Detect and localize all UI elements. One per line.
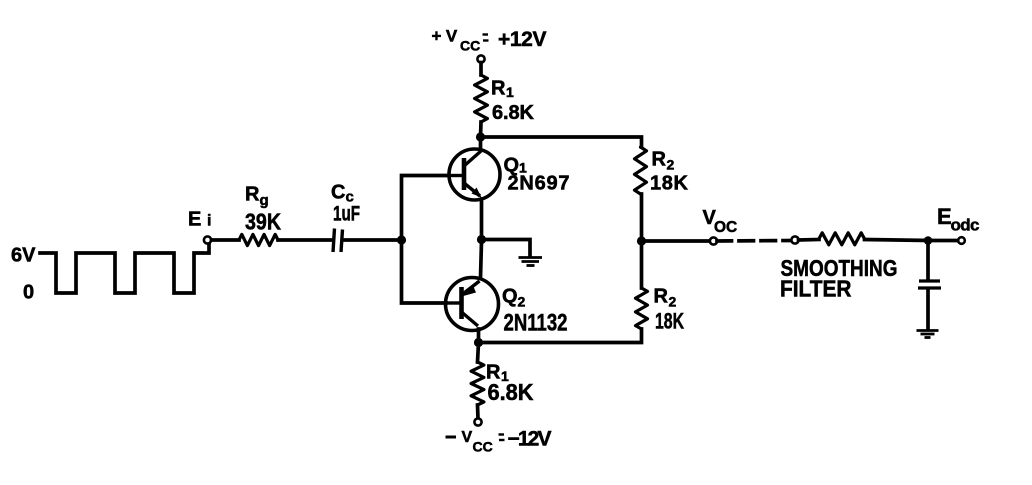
svg-text:V: V [462, 429, 473, 446]
svg-text:6.8K: 6.8K [492, 102, 535, 124]
svg-text:39K: 39K [245, 209, 281, 235]
svg-text:6V: 6V [11, 245, 36, 267]
capacitor Cc 1uF [333, 229, 335, 253]
wire: Q2 emitter up to node [481, 241, 482, 278]
label +Vcc = +12V [432, 27, 547, 54]
wire: Ei to Rg [212, 238, 240, 242]
node: filter input terminal [791, 236, 798, 243]
svg-text:OC: OC [714, 219, 737, 236]
wire: R2 top to Voc junction [640, 194, 644, 241]
power -Vcc terminal [474, 418, 481, 425]
wire: node to Eodc terminal [928, 239, 958, 243]
svg-text:E: E [188, 209, 201, 231]
svg-text:1: 1 [506, 84, 514, 100]
node: emitter junction [477, 235, 486, 244]
node Voc (terminal) [710, 237, 717, 244]
svg-text:CC: CC [473, 439, 493, 455]
transistor Q2 2N1132 (PNP) [446, 278, 499, 331]
resistor R1 6.8K (bottom) [471, 362, 484, 405]
resistor R2 18K (top) [635, 147, 647, 194]
svg-text:Q: Q [502, 286, 518, 308]
svg-text:R: R [652, 149, 667, 171]
svg-text:1uF: 1uF [333, 203, 360, 226]
svg-text:18K: 18K [655, 309, 684, 334]
wire: R1 to node [479, 122, 483, 137]
wire: Q2 collector down [477, 329, 481, 343]
wire: filter resistor to output node [865, 240, 929, 241]
wire: node down to filter capacitor [926, 241, 930, 281]
wire: Q1 emitter down [480, 199, 484, 240]
node Ei (input terminal) [204, 236, 211, 243]
node: bottom junction [474, 338, 483, 347]
ground (emitter) [519, 258, 543, 266]
node: output junction [924, 236, 933, 245]
wire: dashed link to smoothing filter [717, 239, 791, 243]
wire: terminal to filter resistor [799, 238, 820, 242]
node Eodc (output terminal) [958, 237, 965, 244]
svg-text:CC: CC [460, 38, 480, 54]
svg-text:+V: +V [432, 27, 462, 46]
wire: Rg to Cc [278, 238, 331, 242]
svg-text:2N697: 2N697 [508, 173, 570, 195]
wire: R2 bottom to Voc junction [640, 241, 644, 288]
svg-text:i: i [207, 213, 211, 230]
transistor Q1 2N697 (NPN) [449, 149, 500, 200]
power +Vcc terminal [477, 55, 484, 62]
wire: input square wave [40, 245, 209, 293]
wire: bottom node to R2 bottom [479, 329, 642, 343]
wire: bottom node to R1 [478, 343, 479, 363]
svg-text:R: R [491, 78, 506, 100]
resistor R1 6.8K (top) [475, 75, 488, 122]
svg-text:2: 2 [669, 294, 677, 310]
svg-text:E: E [937, 204, 952, 229]
wire: Cc to base node [345, 238, 402, 242]
wire: Q1 collector to node [479, 137, 483, 150]
node: collector/R1/R2 junction [476, 132, 485, 141]
resistor Rg 39K [239, 234, 278, 245]
wire: base bus down to Q2 [402, 240, 447, 303]
svg-text:0: 0 [23, 282, 34, 304]
svg-text:2: 2 [667, 157, 675, 173]
svg-text:−12V: −12V [508, 428, 552, 451]
capacitor: filter shunt [919, 279, 940, 282]
resistor R2 18K (bottom) [636, 288, 648, 329]
wire: base bus up to Q1 [402, 176, 450, 241]
wire: junction to Voc terminal [642, 239, 711, 243]
resistor: smoothing filter [819, 233, 865, 245]
wire: node to R2 top [481, 137, 642, 147]
svg-text:2: 2 [518, 294, 526, 310]
svg-text:R: R [654, 286, 669, 308]
wire: capacitor to ground [926, 290, 930, 330]
label -Vcc = -12V [446, 428, 552, 455]
svg-text:odc: odc [951, 216, 980, 235]
node: Voc junction [637, 236, 646, 245]
svg-text:FILTER: FILTER [780, 276, 852, 302]
ground (output) [917, 331, 939, 338]
svg-text:18K: 18K [650, 173, 689, 195]
wire: +Vcc to R1 [479, 63, 483, 76]
wire: R1 to -Vcc terminal [476, 405, 480, 419]
wire: emitter node to ground [482, 240, 531, 256]
svg-text:+12V: +12V [498, 28, 547, 51]
svg-text:2N1132: 2N1132 [504, 310, 568, 337]
svg-text:6.8K: 6.8K [488, 379, 534, 405]
node: base tie junction [397, 235, 406, 244]
